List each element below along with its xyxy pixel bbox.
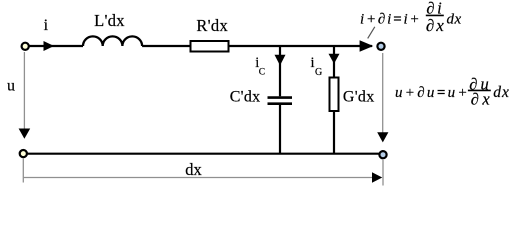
svg-text:i: i	[44, 17, 49, 34]
svg-text:i+∂i=i+: i+∂i=i+	[360, 12, 421, 28]
svg-text:∂x: ∂x	[426, 16, 446, 35]
svg-text:dx: dx	[493, 84, 510, 101]
svg-text:u+∂u=u+: u+∂u=u+	[395, 85, 470, 101]
svg-text:G: G	[315, 67, 322, 78]
svg-text:u: u	[7, 77, 15, 94]
svg-text:C'dx: C'dx	[230, 88, 261, 105]
svg-text:C: C	[259, 67, 265, 77]
svg-text:L'dx: L'dx	[94, 11, 125, 30]
svg-text:∂x: ∂x	[471, 89, 493, 108]
svg-text:G'dx: G'dx	[343, 88, 375, 105]
svg-text:dx: dx	[447, 12, 462, 28]
svg-text:R'dx: R'dx	[196, 16, 228, 35]
svg-text:dx: dx	[185, 160, 202, 179]
svg-text:i: i	[310, 55, 314, 71]
